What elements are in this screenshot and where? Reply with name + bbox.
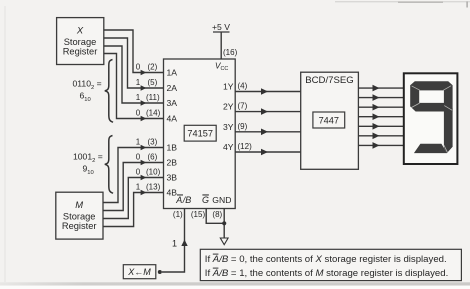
- junction dot: [158, 270, 162, 274]
- segment wire a: [358, 87, 403, 89]
- svg-text:(9): (9): [238, 122, 248, 131]
- wire M register bit0 to 4B: [103, 193, 164, 227]
- label 0110 = 6: [73, 79, 102, 103]
- segment wire e: [358, 125, 403, 127]
- segment gap c-d: [444, 145, 447, 152]
- 7447 label box: [313, 112, 345, 128]
- wire X register bit2 to 2A: [104, 38, 164, 88]
- svg-text:X←M: X←M: [127, 267, 151, 277]
- svg-text:2B: 2B: [167, 158, 178, 168]
- scan edge right: [466, 2, 467, 8]
- svg-text:1B: 1B: [167, 143, 178, 153]
- X storage register box: [57, 18, 104, 65]
- svg-text:1: 1: [136, 78, 141, 87]
- svg-text:Register: Register: [63, 46, 98, 56]
- svg-text:CC: CC: [221, 66, 229, 72]
- segment wire g: [358, 144, 403, 146]
- svg-text:3Y: 3Y: [223, 122, 234, 132]
- svg-text:(8): (8): [212, 210, 222, 219]
- wire M register bit3 to 1B: [103, 148, 164, 203]
- svg-text:0: 0: [136, 168, 141, 177]
- svg-text:Storage: Storage: [64, 37, 97, 47]
- svg-text:1Y: 1Y: [223, 82, 234, 92]
- svg-text:1: 1: [136, 93, 141, 102]
- 74157 label box: [184, 125, 216, 141]
- svg-text:0: 0: [136, 63, 141, 72]
- svg-text:(16): (16): [223, 48, 238, 57]
- wire X register bit1 to 3A: [104, 46, 164, 103]
- svg-text:If A/B = 0, the contents of X: If A/B = 0, the contents of X storage re…: [205, 254, 447, 265]
- note box: [200, 249, 461, 280]
- wire X register bit0 to 4A: [104, 54, 164, 119]
- segment wire f: [358, 135, 403, 137]
- segment gap b-c: [444, 106, 452, 111]
- wire X register bit3 to 1A: [104, 30, 164, 73]
- ground symbol: [220, 238, 228, 245]
- svg-text:(4): (4): [238, 82, 248, 91]
- svg-text:(7): (7): [238, 102, 248, 111]
- segment wire d: [358, 116, 403, 118]
- svg-text:7447: 7447: [319, 116, 339, 126]
- digit 9 top loop (segments a f b g): [410, 81, 452, 111]
- segment wire b: [358, 97, 403, 99]
- svg-text:(13): (13): [146, 183, 161, 192]
- svg-text:(1): (1): [173, 210, 183, 219]
- svg-text:2Y: 2Y: [223, 102, 234, 112]
- svg-text:+5 V: +5 V: [212, 22, 230, 32]
- svg-text:3A: 3A: [167, 98, 178, 108]
- svg-text:3B: 3B: [167, 173, 178, 183]
- svg-text:(6): (6): [148, 153, 158, 162]
- svg-text:1: 1: [172, 238, 177, 248]
- svg-text:X: X: [76, 25, 84, 36]
- select wire from X<-M to A/B pin: [162, 209, 185, 273]
- segment wire c: [358, 106, 403, 108]
- multiplexer U1 74157 box: [164, 59, 236, 209]
- digit 9 segment d bottom bar: [414, 144, 447, 153]
- wire 1Y to decoder: [235, 91, 301, 93]
- scan edge top: [335, 1, 470, 2]
- strobe pin label G: [202, 194, 209, 205]
- wire 3Y to decoder: [235, 131, 301, 133]
- svg-text:G: G: [202, 195, 209, 205]
- svg-text:GND: GND: [212, 195, 231, 205]
- select pin label A/B: [175, 194, 191, 205]
- digit 9 segment c right bar: [444, 108, 453, 153]
- svg-text:74157: 74157: [187, 129, 213, 139]
- brace M group: [105, 136, 113, 194]
- M storage register box: [56, 192, 103, 239]
- segment gap a-f: [412, 86, 420, 90]
- svg-text:M: M: [75, 199, 83, 210]
- svg-text:(15): (15): [191, 210, 206, 219]
- svg-text:(2): (2): [148, 63, 158, 72]
- wire 4Y to decoder: [235, 151, 301, 153]
- strobe G wire to ground: [206, 209, 224, 224]
- GND wire: [223, 209, 225, 239]
- wire M register bit2 to 2B: [103, 163, 164, 211]
- BCD/7SEG decoder box: [301, 72, 359, 169]
- seven segment display box: [404, 73, 458, 164]
- svg-text:(3): (3): [148, 138, 158, 147]
- svg-text:1A: 1A: [167, 68, 178, 78]
- svg-text:BCD/7SEG: BCD/7SEG: [305, 75, 354, 86]
- junction dot G/GND: [222, 221, 226, 225]
- svg-text:2A: 2A: [167, 83, 178, 93]
- wire 2Y to decoder: [235, 111, 301, 113]
- svg-text:If A/B = 1, the contents of M: If A/B = 1, the contents of M storage re…: [205, 268, 448, 279]
- +5V supply: [212, 22, 230, 59]
- svg-text:Register: Register: [62, 221, 97, 231]
- svg-text:(10): (10): [146, 168, 161, 177]
- segment gap f-g: [411, 103, 419, 108]
- wire M register bit1 to 3B: [103, 178, 164, 219]
- svg-text:0: 0: [136, 153, 141, 162]
- svg-text:/B: /B: [182, 195, 192, 205]
- X<-M action box: [123, 265, 156, 279]
- label 1001 = 9: [73, 152, 103, 176]
- svg-text:Storage: Storage: [63, 211, 96, 221]
- svg-text:(14): (14): [146, 109, 161, 118]
- svg-text:0: 0: [136, 109, 141, 118]
- segment gap a-b: [443, 86, 451, 91]
- svg-text:4A: 4A: [167, 114, 178, 124]
- svg-text:(11): (11): [146, 93, 160, 102]
- svg-text:1: 1: [136, 138, 141, 147]
- brace X group: [105, 60, 113, 123]
- svg-text:A: A: [175, 195, 182, 205]
- svg-text:1: 1: [136, 183, 141, 192]
- svg-text:(12): (12): [238, 142, 253, 151]
- scan streak left: [4, 6, 6, 282]
- svg-text:(5): (5): [148, 78, 158, 87]
- up arrowhead on select wire: [181, 240, 187, 247]
- svg-text:4Y: 4Y: [223, 142, 234, 152]
